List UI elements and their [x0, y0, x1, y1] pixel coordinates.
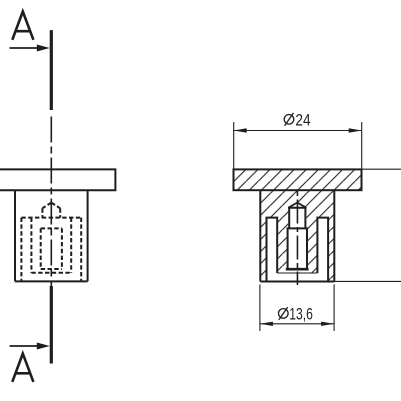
svg-text:24: 24: [295, 111, 310, 129]
svg-text:13,6: 13,6: [289, 306, 313, 324]
